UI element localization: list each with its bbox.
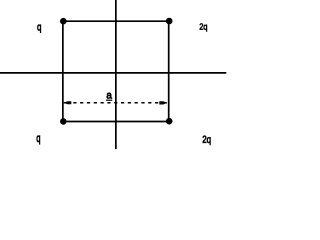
label 2q bottom-right	[203, 136, 211, 145]
label a (underlined)	[106, 93, 112, 100]
wire square right side	[168, 21, 170, 121]
dimension arrow a (dashed double-headed)	[64, 101, 167, 104]
wire square left side	[62, 21, 64, 121]
wire square bottom side	[63, 121, 169, 123]
label 2q top-right	[200, 23, 207, 31]
node charge q top-left	[60, 18, 67, 25]
label q bottom-left	[37, 136, 40, 144]
x-axis	[0, 72, 226, 74]
node charge q bottom-left	[60, 118, 67, 125]
y-axis	[115, 0, 117, 149]
node charge 2q top-right	[166, 18, 173, 25]
node charge 2q bottom-right	[166, 118, 173, 125]
wire square top side	[63, 20, 169, 22]
label q top-left	[37, 25, 41, 33]
